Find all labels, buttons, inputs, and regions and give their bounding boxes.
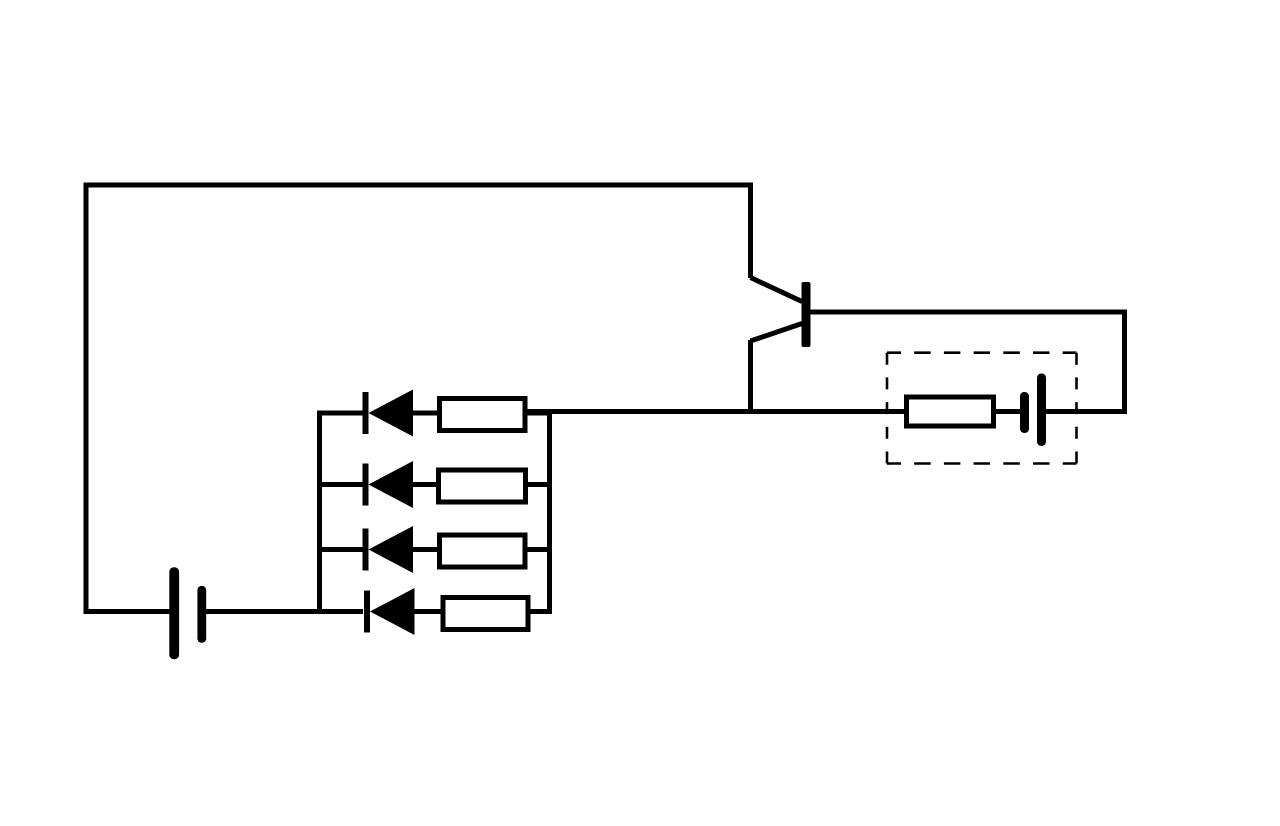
wire: Q1 base lead, right vertical wire and segment to battery B2 (810, 312, 1125, 412)
diode D4 (367, 588, 415, 635)
wire: battery B1 to left bus (206, 609, 322, 614)
wire: row 3 left segment (317, 547, 363, 552)
wire: transistor emitter lead down to long wire (748, 340, 753, 414)
wire: R2 to right bus (528, 482, 553, 487)
battery B1 short plate (negative) (197, 586, 206, 643)
wire: right bus (node B) (547, 409, 552, 614)
transistor Q1 collector diagonal (751, 278, 803, 302)
transistor Q1 emitter diagonal (751, 324, 803, 342)
diode D2 (366, 461, 414, 508)
wire: long output wire from right bus to battery B2 (528, 409, 1022, 414)
wire: row 1 left segment (317, 411, 363, 416)
battery B2 long plate (positive) (1037, 374, 1046, 447)
diode D1 (366, 390, 414, 437)
wire: row 4 left segment (317, 609, 363, 614)
resistor R2 (439, 470, 526, 502)
resistor R1 (440, 399, 526, 431)
wire: D3 to R3 (413, 547, 441, 552)
wire: left bus (node A) (317, 411, 322, 615)
battery B1 long plate (positive) (169, 567, 179, 659)
wire: D1 to R1 (413, 411, 441, 416)
resistor R4 (443, 598, 528, 630)
wire: row 2 left segment (317, 482, 363, 487)
wire: R3 to right bus (528, 547, 553, 552)
wire: D2 to R2 (413, 482, 441, 487)
wire: main left loop (top wire, left wire, bottom-left wire) (86, 185, 751, 612)
resistor R3 (440, 535, 526, 567)
diode D3 (366, 526, 414, 573)
battery B2 short plate (negative) (1020, 392, 1029, 433)
dashed enclosure box around R5 and B2 (887, 353, 1077, 464)
wire: R4 to right bus (531, 609, 553, 614)
wire: D4 to R4 (415, 609, 445, 614)
resistor R5 (inside dashed box) (907, 397, 994, 426)
transistor Q1 base bar (802, 282, 811, 347)
wire: R1 to right bus (528, 411, 553, 416)
